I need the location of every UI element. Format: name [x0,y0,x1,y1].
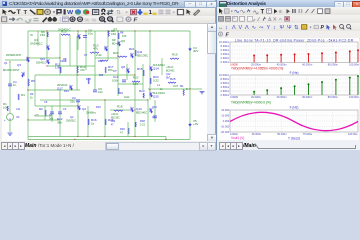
svg-text:Ψ: Ψ [280,25,285,31]
svg-text:6.500m: 6.500m [221,81,230,85]
svg-text:Q10: Q10 [40,57,45,61]
resistor R2 [45,110,46,116]
svg-text:10n: 10n [98,90,103,94]
junction 14 [77,136,78,137]
resistor R9 [118,33,119,39]
capacitor C10 [122,80,126,82]
svg-text:↕: ↕ [225,25,228,31]
junction 7 [27,57,28,58]
svg-text:2u: 2u [160,88,163,91]
junction 19 [165,139,166,140]
wire bottom rail inner [28,136,166,138]
svg-text:KT: KT [113,69,117,73]
capacitor C1 [8,84,12,86]
wire v52b [51,106,53,122]
wire v60 [59,33,61,75]
svg-text:8.300m: 8.300m [221,44,230,48]
svg-text:Λ: Λ [245,25,249,31]
wire v88b [87,106,89,137]
ground input [8,133,13,135]
svg-text:R20: R20 [113,51,119,55]
svg-text:0.500m: 0.500m [221,93,230,97]
svg-text:+0V: +0V [193,122,198,126]
svg-text:1.8k: 1.8k [55,66,61,70]
wire v150 [149,31,151,100]
resistor R28 [135,122,136,127]
svg-text:R7: R7 [114,28,118,32]
wire v143 [142,64,144,90]
svg-text:2N5999-6P4T: 2N5999-6P4T [6,54,22,57]
capacitor C9 [93,90,97,92]
svg-text:R19: R19 [172,53,178,57]
svg-text:BD140C: BD140C [136,111,148,115]
svg-text:10.500m: 10.500m [219,73,229,77]
wire input link [5,59,28,61]
svg-text:R30: R30 [120,127,125,131]
svg-text:Λ: Λ [232,25,236,31]
junction out [189,88,190,89]
svg-text:22u: 22u [70,100,75,104]
transistor Q10 [47,59,49,64]
resistor R6 [47,32,48,37]
resistor R20 [118,56,127,57]
svg-text:R25: R25 [170,77,176,81]
svg-text:1k: 1k [91,122,95,126]
svg-text:0.22: 0.22 [140,123,146,127]
wire v128b [127,122,129,137]
transistor Q1 [27,57,29,62]
wire h106 [35,105,78,107]
svg-text:75.000u: 75.000u [303,132,313,136]
chart 3 frame [230,110,358,132]
svg-text:0.22: 0.22 [153,79,159,83]
resistor R5 on rail [28,79,29,86]
junction 8 [27,89,28,90]
wire top rail [28,30,190,32]
chart 2 green stems [254,76,358,95]
svg-text:R21: R21 [129,47,135,51]
chart 1 frame [230,42,358,63]
wire h58 [28,57,60,59]
wire h66 [47,65,95,67]
wire bottom rail outer [28,139,190,141]
svg-text:R3: R3 [30,92,34,96]
junction 11 [104,99,105,100]
wire output drop [147,100,149,137]
svg-text:Q2: Q2 [70,115,74,119]
resistor R21 [135,50,136,56]
svg-text:OUT: OUT [173,85,179,88]
svg-text:150: 150 [40,33,45,37]
transistor Q15 [150,92,152,97]
junction 4 [117,30,118,31]
svg-text:4.500m: 4.500m [221,85,230,89]
svg-text:R2: R2 [39,107,43,111]
svg-text:R8: R8 [120,31,124,35]
wire v162t [161,58,163,75]
wire v155 [154,100,156,122]
svg-text:R22: R22 [111,121,116,123]
source V5 arrow [189,123,191,126]
svg-text:Q3: Q3 [17,63,21,67]
svg-text:Q17: Q17 [57,87,63,91]
transistor Q3 [22,72,24,77]
svg-text:+C5: +C5 [34,114,39,117]
resistor R16 [88,119,89,125]
svg-text:C4: C4 [60,59,64,63]
chart 3 x labels [230,132,358,136]
wire v118m [117,62,119,96]
svg-text:100.00m: 100.00m [349,63,359,67]
svg-text:Q8: Q8 [121,65,125,69]
transistor Q13 [131,107,133,112]
svg-text:+39.2C: +39.2C [111,114,119,116]
wire right rail [189,31,191,140]
capacitor C8 [83,36,87,38]
resistor R1 [7,106,8,111]
wire v127 [126,64,128,80]
junction 25 [117,55,118,56]
svg-text:0.0000: 0.0000 [230,95,238,99]
chart 2 y labels [219,73,229,97]
resistor R8 [108,31,109,37]
svg-text:2.300m: 2.300m [221,56,230,60]
svg-text:BD+0C: BD+0C [112,43,120,46]
wire v86 [85,31,87,70]
svg-text:RL: RL [180,84,184,88]
svg-text:+39.2C: +39.2C [166,67,174,69]
junction 23 [85,30,86,31]
resistor R24 [150,78,151,84]
wire v60b [59,106,61,137]
svg-text:C3: C3 [63,107,67,111]
svg-text:1n: 1n [13,83,17,87]
junction 10 [77,74,78,75]
resistor R4 [18,94,19,100]
svg-text:80.000m: 80.000m [328,95,338,99]
resistor R12 [100,60,108,61]
capacitor C5 [50,112,54,114]
resistor RL [183,90,184,96]
svg-text:80.000m: 80.000m [328,63,338,67]
junction 12 [134,74,135,75]
wire v105b [104,100,106,137]
svg-text:60.000m: 60.000m [302,63,312,67]
resistor R15 [143,70,144,76]
svg-text:25.000u: 25.000u [252,132,262,136]
capacitor C2 [76,100,80,102]
wire h84 [118,83,143,85]
resistor R11 [60,67,61,73]
svg-text:P: P [321,25,325,31]
svg-text:R22: R22 [133,76,139,80]
svg-text:THD(mVRMS)=+0000.0 (%): THD(mVRMS)=+0000.0 (%) [231,100,271,104]
resistor R25 [168,82,176,83]
svg-text:⇅: ⇅ [294,25,299,31]
svg-text:-20.000: -20.000 [220,130,229,134]
svg-text:40.000m: 40.000m [277,95,287,99]
svg-text:10k: 10k [3,106,8,110]
transistor Q7 [105,46,107,51]
wire v78b [77,100,79,137]
svg-text:150: 150 [122,34,127,38]
ground output [200,92,205,94]
svg-text:0u22: 0u22 [124,96,130,99]
wire v70b [69,35,71,66]
wire v60mid [59,90,61,106]
chart 3 sine wave [230,112,358,130]
svg-text:2.500m: 2.500m [221,89,230,93]
resistor R17 [105,67,106,73]
svg-text:R23: R23 [139,89,145,93]
transistor Q11 [131,53,133,58]
wire h75 [35,74,135,76]
svg-text:1k: 1k [30,96,33,100]
capacitor C6 [153,116,157,118]
junction 17 [134,136,135,137]
svg-text:↔: ↔ [218,25,224,31]
svg-text:↕: ↕ [273,25,276,31]
wire h90 [28,89,80,91]
svg-text:47k: 47k [80,68,85,72]
svg-text:R7: R7 [49,113,53,117]
junction 24 [59,57,60,58]
svg-text:36k: 36k [49,117,54,121]
resistor R19 [170,58,179,59]
wire v108 [107,31,109,60]
svg-text:BD139C: BD139C [137,54,149,58]
svg-text:Y: Y [267,25,271,31]
wire v135 [134,31,136,137]
svg-text:47k: 47k [93,47,98,51]
left window: TINA schematic editor [0,0,216,150]
junction 27 [77,105,78,106]
transistor Q2 [78,105,80,110]
svg-text:60.000m: 60.000m [302,95,312,99]
junction 26 [134,109,135,110]
wire left rail [27,31,29,140]
junction 15 [87,136,88,137]
wire v35 [34,75,36,106]
svg-text:R16: R16 [96,105,101,109]
svg-text:IN: IN [30,33,33,37]
junction 3 [107,30,108,31]
resistor R23 [143,93,144,98]
svg-text:0.000: 0.000 [223,119,230,123]
wire v95mid [94,66,96,90]
svg-text:R5: R5 [31,79,35,83]
SCHEM_START [2,23,207,141]
svg-text:BD139C: BD139C [111,118,120,120]
svg-text:Q15: Q15 [153,95,159,99]
chart 1 red stems [254,51,358,63]
capacitor C3 [58,112,62,114]
svg-text:Q2: Q2 [82,107,86,111]
transistor Q4 [47,45,49,50]
resistor R10 [61,34,70,35]
svg-text:50.000u: 50.000u [277,132,287,136]
junction 1 [77,30,78,31]
wire v77long [76,36,78,90]
svg-text:100.00m: 100.00m [349,95,359,99]
junction 16 [104,136,105,137]
transistor Q5 [78,34,80,39]
wire v70 [77,31,79,50]
svg-text:20.000: 20.000 [221,108,229,112]
resistor R13 [90,52,99,53]
wire h110k [110,109,130,111]
junction 13 [147,99,148,100]
svg-text:R4: R4 [21,93,25,97]
transistor Q6 [118,41,120,46]
wire h120 [28,119,60,121]
junction 2 [85,30,86,31]
svg-text:0.300m: 0.300m [221,60,230,64]
svg-text:R28: R28 [140,119,145,123]
resistor R15b [88,78,89,84]
svg-text:47: 47 [120,131,123,135]
svg-text:C11: C11 [16,108,21,111]
svg-text:R18: R18 [117,105,123,109]
chart 1 y labels [219,40,229,64]
svg-text:Q12: Q12 [166,74,171,76]
junction 0 [46,30,47,31]
wire v95t [94,31,96,66]
svg-text:6.300m: 6.300m [221,48,230,52]
svg-text:+: + [4,118,6,122]
svg-text:2N5401C: 2N5401C [36,62,46,65]
junction 18 [74,139,75,140]
wire jog inner-outer [165,137,167,140]
svg-text:47: 47 [111,125,114,127]
svg-text:20.000m: 20.000m [251,95,261,99]
svg-text:-10.000: -10.000 [220,125,229,129]
transistor Q17 [70,85,72,90]
svg-text:F (Hz): F (Hz) [290,71,299,75]
svg-text:2N5551C: 2N5551C [66,120,76,123]
chart 2 frame [230,75,358,95]
svg-text:40V: 40V [193,49,198,53]
junction 22 [9,61,10,62]
source V1 [7,114,14,121]
wire input column [9,62,11,113]
svg-text:Ψ: Ψ [287,25,292,31]
chart 3 y labels [220,108,229,134]
capacitor C4 [64,58,66,62]
right window: Distortion Analysis [216,0,360,150]
wire h116 [35,115,52,117]
resistor R22 [132,81,140,82]
svg-text:F (Hz): F (Hz) [290,105,299,109]
wire v118 [117,31,119,62]
svg-text:10.300m: 10.300m [219,40,229,44]
resistor R18 [114,110,123,111]
svg-text:2N5401C: 2N5401C [30,42,44,46]
wire out bus [148,88,202,90]
svg-text:BC546C: BC546C [166,71,175,73]
transistor Q16 [150,108,152,113]
svg-text:∿: ∿ [252,25,257,31]
svg-text:4.300m: 4.300m [221,52,230,56]
svg-text:2.2k: 2.2k [96,53,102,57]
wire h100 [40,99,148,101]
chart 1 x labels [230,63,359,67]
svg-text:Q1: Q1 [4,61,8,65]
svg-text:∾: ∾ [259,25,264,31]
svg-text:8.500m: 8.500m [221,77,230,81]
junction 9 [46,65,47,66]
resistor R14 [77,66,78,73]
svg-text:10.000: 10.000 [221,114,229,118]
svg-text:2N888nc: 2N888nc [86,112,97,115]
chart 2 x labels [230,95,359,99]
svg-text:R31: R31 [64,89,69,93]
transistor Q14 [150,66,152,71]
wire v47 [46,31,48,58]
wire input lower [9,121,11,132]
svg-text:BD139C-B4VT: BD139C-B4VT [3,69,20,72]
source V4 arrow [189,48,191,51]
svg-text:10u: 10u [88,32,93,36]
wire v45b [44,106,46,120]
transistor Q8 [127,68,129,73]
svg-text:T: T [24,10,28,16]
svg-text:100.00u: 100.00u [348,132,358,136]
junction 6 [149,30,150,31]
resistor R26 [105,119,106,125]
svg-text:Q14: Q14 [153,67,159,71]
junction 21 [149,89,150,90]
svg-text:C7: C7 [84,53,88,57]
wire h60b [95,57,118,59]
svg-text:THD(mVRMS)=+4.0955m +0000 (%): THD(mVRMS)=+4.0955m +0000 (%) [231,66,283,70]
junction 20 [27,119,28,120]
svg-text:36k: 36k [57,121,62,125]
junction 5 [134,30,135,31]
svg-text:2N5401C: 2N5401C [58,28,72,32]
resistor R30 [128,128,129,134]
svg-text:L1: L1 [157,83,160,87]
svg-text:150: 150 [111,32,116,36]
svg-text:V: V [239,25,243,31]
svg-text:R15: R15 [137,67,143,71]
wire v38 [37,31,39,46]
svg-text:Q6: Q6 [121,39,125,43]
svg-text:C5: C5 [44,100,48,104]
svg-text:Q16: Q16 [152,105,157,109]
resistor R29 [118,88,119,94]
svg-text:V1: V1 [16,115,20,119]
